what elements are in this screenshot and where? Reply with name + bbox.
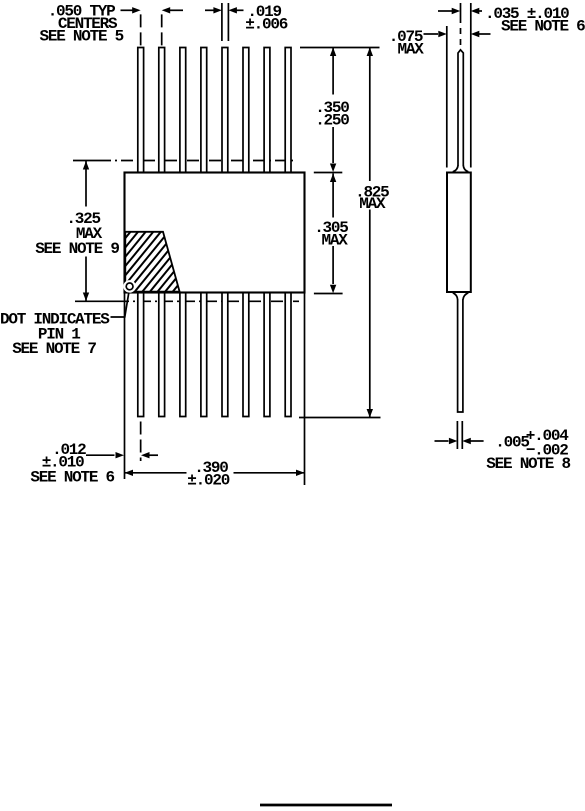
top extension line (lead tips) <box>300 47 380 49</box>
.005 +.004 -.002 dimension <box>435 440 449 442</box>
.019 +/-.006 dimension <box>205 9 214 11</box>
.825 MAX dimension <box>367 48 373 57</box>
side view: lower lead flare <box>453 293 458 300</box>
.050 TYP CENTERS dimension <box>121 9 134 11</box>
.325 MAX dimension <box>83 161 89 170</box>
svg-text:SEE NOTE 6: SEE NOTE 6 <box>30 469 114 487</box>
lead pin top 5 <box>222 48 228 173</box>
pin 1 center dashed line (bottom) <box>140 422 142 462</box>
side view: body <box>447 173 471 293</box>
side view: center line <box>460 3 462 23</box>
svg-text:SEE NOTE 6: SEE NOTE 6 <box>501 17 585 35</box>
lead pin bottom 5 <box>222 293 228 417</box>
seating plane dash-dot line <box>73 160 99 162</box>
svg-text:±.006: ±.006 <box>245 15 287 33</box>
body bottom extension line <box>314 293 343 295</box>
svg-text:MAX: MAX <box>359 195 386 213</box>
.390 +/-.020 dimension <box>125 470 134 476</box>
lead pin top 6 <box>243 48 249 173</box>
lead pin bottom 7 <box>264 293 270 417</box>
.005 extension lines (lead thickness) <box>456 421 458 449</box>
svg-text:MAX: MAX <box>322 232 349 250</box>
package body outline <box>125 173 305 293</box>
lead pin top 8 <box>285 48 291 173</box>
pin 1 center dashed line (top) <box>140 14 142 45</box>
lead pin bottom 4 <box>201 293 207 417</box>
body edge extension lines <box>124 293 126 480</box>
lead pin top 2 <box>159 48 165 173</box>
lead pin bottom 3 <box>180 293 186 417</box>
side view: lower lead <box>458 299 463 412</box>
leader: dot indicates pin 1 <box>111 293 129 318</box>
.305 MAX dimension <box>330 174 336 183</box>
svg-text:SEE NOTE 7: SEE NOTE 7 <box>12 340 96 358</box>
lower standoff dash-dot line <box>75 300 117 302</box>
.035 +/-.010 dimension (top) <box>438 10 452 12</box>
svg-text:MAX: MAX <box>398 41 425 59</box>
svg-text:.005: .005 <box>495 433 529 451</box>
lead pin bottom 1 <box>138 293 144 417</box>
.350/.250 dimension <box>330 48 336 57</box>
.012 +/-.010 dimension <box>86 454 115 456</box>
side view: upper lead <box>458 50 463 166</box>
svg-text:SEE NOTE 9: SEE NOTE 9 <box>35 240 119 258</box>
side view: upper lead flare <box>453 166 458 172</box>
pin 2 center dashed line (top) <box>161 14 163 45</box>
svg-text:SEE NOTE 8: SEE NOTE 8 <box>486 455 570 473</box>
bottom border segment <box>260 804 392 807</box>
lead pin top 7 <box>264 48 270 173</box>
lead pin bottom 8 <box>285 293 291 417</box>
side view: left extension line <box>446 26 448 168</box>
lead pin top 3 <box>180 48 186 173</box>
svg-text:SEE NOTE 5: SEE NOTE 5 <box>40 28 124 46</box>
lead pin top 1 <box>138 48 144 173</box>
body top extension line <box>314 172 343 174</box>
side view: right extension line <box>470 3 472 168</box>
svg-text:.250: .250 <box>315 111 349 129</box>
lead pin top 4 <box>201 48 207 173</box>
pin 1 index dot <box>123 280 136 293</box>
.075 MAX dimension <box>424 33 439 35</box>
lead pin bottom 2 <box>159 293 165 417</box>
bottom extension line (lead tips) <box>299 417 381 419</box>
svg-text:±.020: ±.020 <box>187 472 229 490</box>
lead pin bottom 6 <box>243 293 249 417</box>
.019 extension lines (pin 5 width) <box>221 3 223 41</box>
